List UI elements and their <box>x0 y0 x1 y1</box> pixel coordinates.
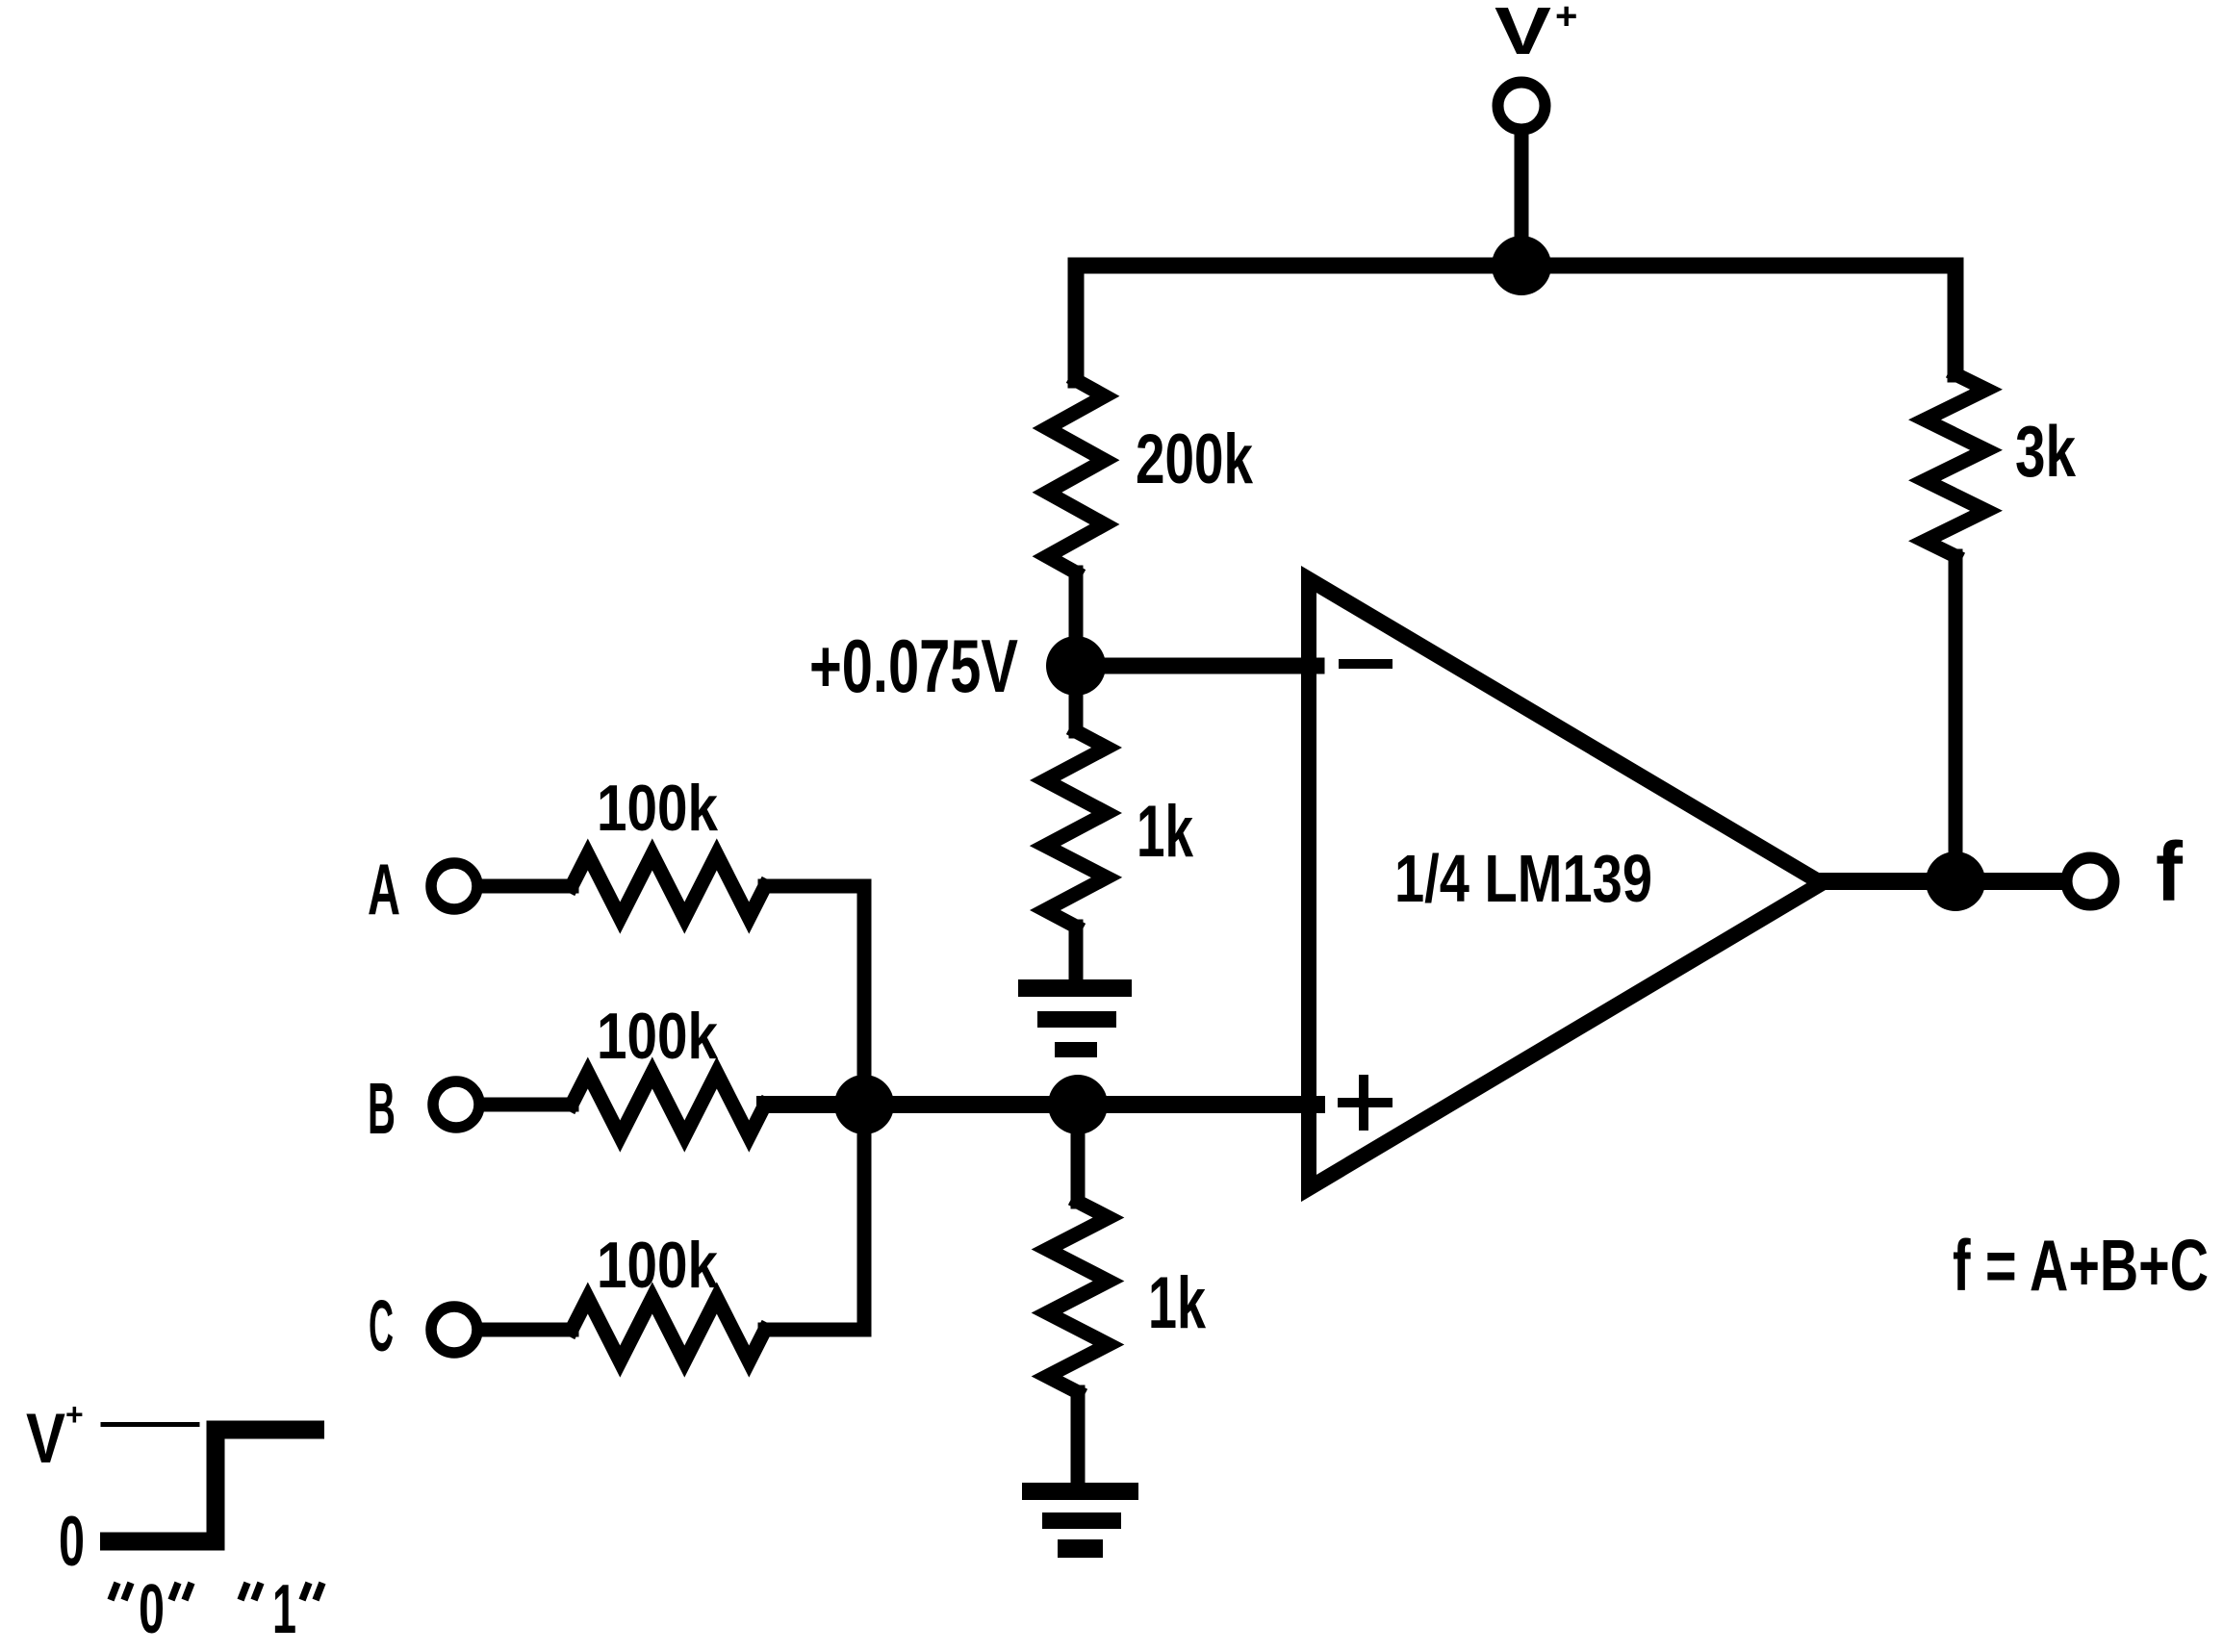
resistor 100k A zigzag <box>572 854 765 918</box>
svg-text:+0.075V: +0.075V <box>809 623 1018 708</box>
node output junction <box>1926 851 1985 911</box>
node V+ junction <box>1492 236 1551 295</box>
svg-text:+: + <box>65 1397 84 1432</box>
wire A to resistor <box>479 879 572 894</box>
wire 1k to ground <box>1069 927 1084 985</box>
resistor 100k C zigzag <box>572 1298 765 1361</box>
resistor 200k zigzag <box>1047 380 1105 572</box>
svg-text:1k: 1k <box>1137 791 1194 873</box>
wire B resistor to non-inverting input <box>765 1096 1316 1113</box>
op-amp U1 triangle <box>1309 579 1822 1188</box>
terminal V+ circle <box>1498 83 1546 130</box>
resistor 1k lower zigzag <box>1047 1202 1109 1392</box>
svg-text:100k: 100k <box>597 1000 718 1073</box>
wire top bus with corners <box>1076 266 1955 380</box>
resistor 1k upper zigzag <box>1045 731 1107 927</box>
ground lower <box>1022 1483 1138 1558</box>
node +0.075V junction <box>1046 636 1106 696</box>
op-amp inverting pin mark <box>1343 659 1388 669</box>
terminal B circle <box>433 1081 479 1128</box>
resistor 3k zigzag <box>1925 374 1986 556</box>
node bus-B junction <box>834 1075 894 1134</box>
svg-text:B: B <box>368 1068 396 1149</box>
terminal C circle <box>431 1307 477 1353</box>
ground upper <box>1018 979 1132 1057</box>
svg-text:100k: 100k <box>597 772 718 845</box>
svg-text:100k: 100k <box>597 1229 718 1302</box>
wire node to inverting input <box>1076 658 1316 674</box>
wire C to bus <box>765 1323 864 1337</box>
waveform step trace <box>100 1430 324 1541</box>
wire op-amp output <box>1819 873 2059 890</box>
svg-text:A: A <box>368 849 400 929</box>
resistor 100k B zigzag <box>572 1073 765 1136</box>
svg-text:f = A+B+C: f = A+B+C <box>1953 1225 2209 1306</box>
svg-text:3k: 3k <box>2015 411 2076 492</box>
wire plus node to resistor 1k lower <box>1071 1105 1086 1202</box>
terminal f circle <box>2067 858 2114 905</box>
svg-text:0: 0 <box>139 1571 165 1648</box>
svg-text:C: C <box>369 1285 394 1366</box>
node plus-input junction <box>1048 1075 1108 1134</box>
wire 1k lower to ground <box>1071 1392 1086 1488</box>
wire A to bus <box>765 879 864 894</box>
op-amp non-inverting pin mark <box>1342 1080 1388 1126</box>
svg-text:V: V <box>26 1400 65 1478</box>
wire B to resistor <box>481 1098 572 1112</box>
wire input bus vertical <box>857 886 872 1330</box>
terminal V+ label <box>1495 0 1577 68</box>
wire V+ to top bus <box>1515 135 1529 260</box>
wire 200k to node <box>1069 572 1084 659</box>
svg-text:f: f <box>2156 826 2184 919</box>
waveform logic 1 label <box>241 1571 322 1648</box>
wire 3k to output node <box>1949 556 1963 876</box>
svg-text:1: 1 <box>272 1571 296 1648</box>
svg-text:1/4 LM139: 1/4 LM139 <box>1394 841 1652 916</box>
wire C to resistor <box>479 1323 572 1337</box>
svg-text:+: + <box>1555 0 1577 38</box>
waveform V+ level reference line <box>103 1422 197 1427</box>
wire node to resistor 1k <box>1069 666 1084 731</box>
terminal A circle <box>431 863 477 909</box>
svg-text:V: V <box>1495 0 1551 68</box>
waveform V+ label <box>26 1397 84 1478</box>
svg-text:0: 0 <box>59 1503 85 1581</box>
waveform logic 0 label <box>111 1571 192 1648</box>
svg-text:200k: 200k <box>1136 420 1253 498</box>
svg-text:1k: 1k <box>1148 1262 1207 1344</box>
